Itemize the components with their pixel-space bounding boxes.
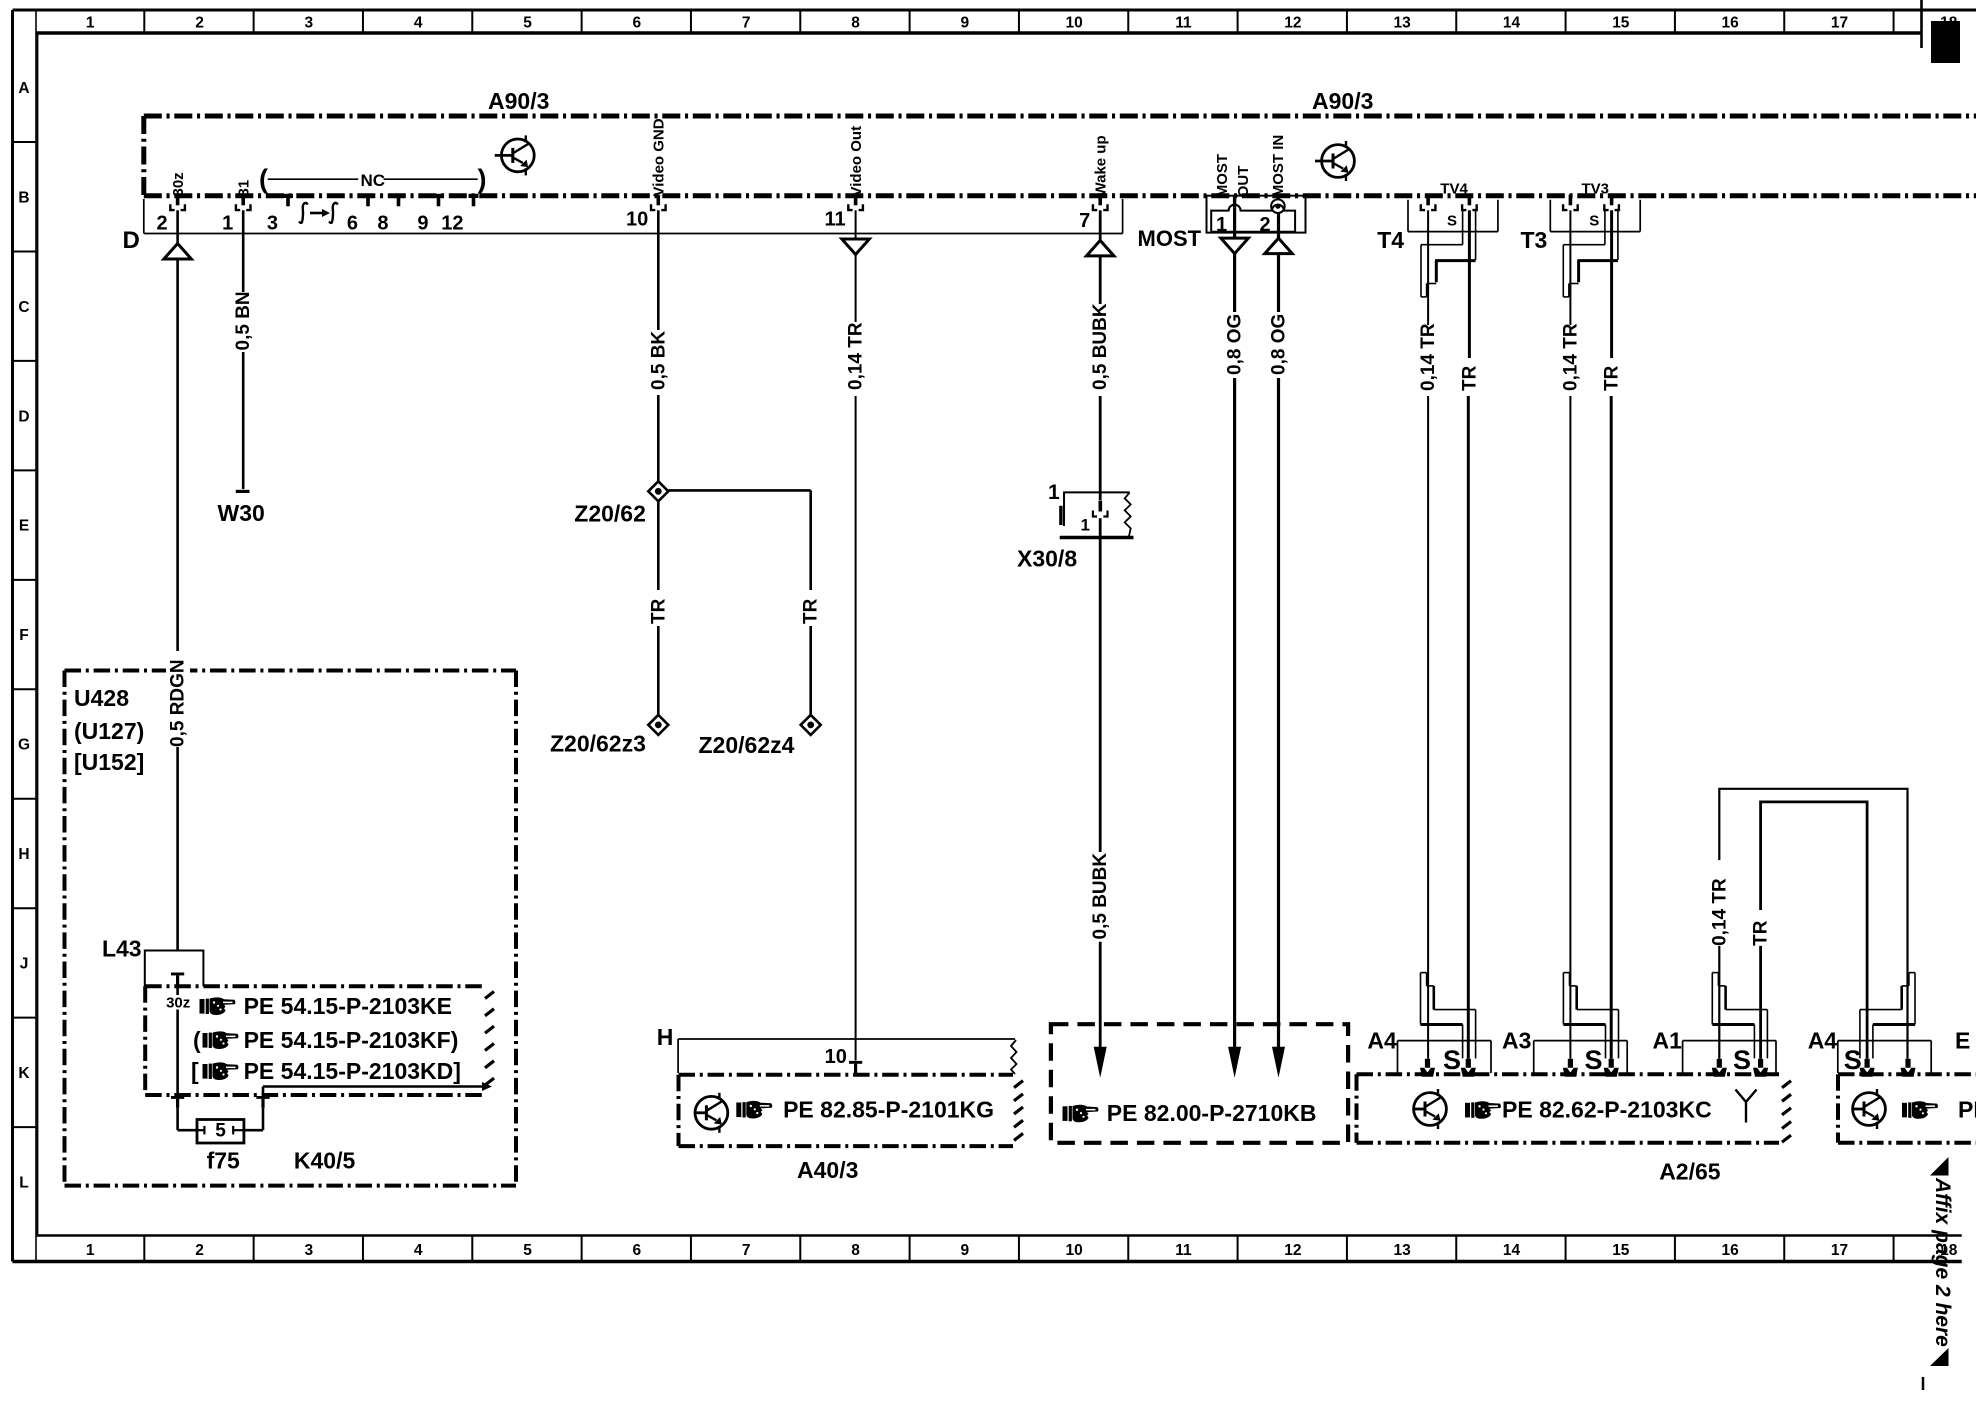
svg-text:PE 54.15-P-2103KF): PE 54.15-P-2103KF): [244, 1027, 459, 1053]
svg-text:Video Out: Video Out: [848, 126, 865, 197]
arrow to PE references: [482, 1082, 492, 1091]
svg-text:12: 12: [1284, 1242, 1301, 1259]
wire 0,5 BN from pin 1: [242, 210, 245, 292]
svg-text:T3: T3: [1521, 227, 1548, 253]
drawing area border: [37, 33, 39, 1236]
shield ribbon A4 right: [1909, 972, 1915, 974]
MOST connector housing: [1207, 196, 1306, 233]
antenna module box right (cut): [1838, 1072, 1976, 1076]
left ruler row dividers: [13, 141, 37, 143]
pin A4 left signal: [1425, 1059, 1430, 1069]
hand icon PE 54.15 row1: [200, 997, 236, 1015]
svg-text:A40/3: A40/3: [797, 1157, 858, 1183]
svg-text:OUT: OUT: [1235, 166, 1252, 198]
svg-text:F: F: [19, 627, 28, 644]
svg-text:0,8 OG: 0,8 OG: [1269, 314, 1290, 375]
svg-text:Z20/62: Z20/62: [574, 500, 646, 526]
svg-text:X30/8: X30/8: [1017, 546, 1077, 572]
wire 0,14 TR from pin 11: [855, 210, 857, 239]
svg-text:0,14 TR: 0,14 TR: [846, 322, 867, 390]
svg-text:S: S: [1443, 1045, 1461, 1075]
svg-text:H: H: [18, 846, 29, 863]
svg-text:3: 3: [305, 1242, 314, 1259]
svg-text:MOST IN: MOST IN: [1270, 135, 1287, 198]
wire interruption symbol between pins 3 and 6: [299, 203, 308, 223]
svg-text:(: (: [193, 1027, 201, 1053]
svg-text:J: J: [20, 956, 29, 973]
shield ribbon T4: [1421, 244, 1463, 246]
arrow into PE box from MOST IN: [1272, 1047, 1285, 1078]
svg-text:15: 15: [1612, 15, 1630, 32]
wire to fuse f75: [176, 1108, 179, 1130]
hand icon PE 82.00: [1063, 1105, 1099, 1123]
svg-text:4: 4: [414, 1242, 423, 1259]
svg-text:6: 6: [633, 1242, 642, 1259]
svg-text:1: 1: [1048, 481, 1060, 504]
svg-text:A3: A3: [1502, 1028, 1531, 1054]
semiconductor symbol in A90/3 left: [495, 135, 534, 175]
top ruler strip bottom line: [36, 31, 1922, 35]
loop shield wire TR between A1 and right A4: [1761, 802, 1868, 1059]
solder point Z20/62z3: [648, 715, 668, 735]
svg-text:13: 13: [1394, 1242, 1412, 1259]
frame outer border: [13, 9, 1976, 12]
svg-text:A1: A1: [1653, 1028, 1683, 1054]
svg-text:30z: 30z: [170, 172, 187, 196]
svg-text:PE 54.15-P-2103KD]: PE 54.15-P-2103KD]: [244, 1058, 461, 1084]
unconnected pin 12 of A90/3: [469, 194, 479, 198]
wire from fuse up to K40/5: [244, 1129, 263, 1132]
shield ribbon A1: [1712, 972, 1718, 974]
MOST pin 2 optical loop: [1271, 199, 1285, 213]
svg-text:2: 2: [195, 1242, 204, 1259]
svg-text:D: D: [18, 408, 29, 425]
svg-text:S: S: [1733, 1045, 1751, 1075]
unconnected pin 8 of A90/3: [394, 194, 404, 198]
semiconductor symbol in right box: [1853, 1089, 1886, 1129]
svg-text:16: 16: [1722, 1242, 1740, 1259]
svg-text:(U127): (U127): [74, 718, 144, 744]
svg-text:0,14 TR: 0,14 TR: [1709, 878, 1730, 946]
svg-text:G: G: [18, 737, 30, 754]
pin 7 of A90/3, Wake up: [1098, 195, 1102, 206]
svg-text:1: 1: [1216, 214, 1227, 236]
top ruler dividers: [143, 10, 145, 33]
hand icon right box: [1902, 1101, 1938, 1119]
svg-text:0,14 TR: 0,14 TR: [1418, 323, 1439, 391]
fuse box K40/5 frame: [145, 984, 483, 988]
page joint mark bottom right: [1922, 1377, 1925, 1390]
pin A4 left shield: [1466, 1059, 1471, 1069]
svg-text:0,5 BUBK: 0,5 BUBK: [1090, 303, 1111, 390]
svg-text:3: 3: [267, 213, 278, 235]
svg-text:10: 10: [1066, 1242, 1083, 1259]
arrow into PE box from 0,5 BUBK: [1094, 1047, 1107, 1078]
svg-text:9: 9: [961, 15, 970, 32]
page joint mark top right: [1920, 0, 1923, 48]
svg-text:12: 12: [441, 213, 463, 235]
svg-text:TR: TR: [1459, 365, 1480, 391]
semiconductor symbol in A2/65: [1414, 1089, 1447, 1129]
svg-text:14: 14: [1503, 1242, 1521, 1259]
svg-text:0,5 RDGN: 0,5 RDGN: [168, 659, 189, 747]
semiconductor symbol in A40/3: [695, 1093, 728, 1133]
wire 0,5 BUBK upper: [1099, 210, 1102, 240]
svg-text:15: 15: [1612, 1242, 1630, 1259]
black registration box top right: [1931, 21, 1960, 63]
pin A1 shield: [1758, 1059, 1763, 1069]
svg-text:Wake up: Wake up: [1092, 135, 1109, 196]
svg-text:12: 12: [1284, 15, 1301, 32]
wire inside K40/5: [176, 986, 179, 995]
direction triangle up on wire 30z: [164, 244, 192, 260]
shield wire TR from TV4: [1468, 210, 1471, 358]
svg-text:16: 16: [1722, 15, 1740, 32]
svg-text:9: 9: [417, 213, 428, 235]
pin A3 shield: [1609, 1059, 1614, 1069]
svg-text:10: 10: [626, 209, 648, 231]
pin TV4 signal: [1426, 195, 1430, 206]
svg-text:K40/5: K40/5: [294, 1148, 356, 1174]
svg-text:[U152]: [U152]: [74, 749, 144, 775]
bottom ruler dividers: [143, 1236, 145, 1262]
wire 0,8 OG from MOST pin 2: [1277, 196, 1280, 200]
component box U428: [65, 669, 517, 673]
svg-text:MOST: MOST: [1214, 154, 1231, 197]
svg-text:0,8 OG: 0,8 OG: [1225, 314, 1246, 375]
pin 10 on A40/3: [849, 1061, 862, 1064]
svg-text:1: 1: [86, 1242, 95, 1259]
wire 0,5 RDGN from pin 2: [176, 210, 179, 243]
svg-text:PE 82.00-P-2710KB: PE 82.00-P-2710KB: [1107, 1100, 1317, 1126]
ground point W30: [236, 490, 250, 493]
svg-text:T4: T4: [1377, 227, 1404, 253]
svg-text:E: E: [1955, 1028, 1970, 1054]
pin A4 right signal: [1905, 1059, 1910, 1069]
svg-text:TR: TR: [648, 598, 669, 624]
shield wire TR from TV3: [1610, 210, 1613, 358]
wire 0,5 BK from pin 10: [657, 210, 660, 330]
wire from label to L43: [176, 747, 179, 951]
shield ribbon T3: [1563, 244, 1605, 246]
bottom ruler top line: [36, 1234, 1962, 1237]
svg-text:6: 6: [347, 213, 358, 235]
svg-text:L43: L43: [102, 936, 142, 962]
svg-text:30z: 30z: [166, 995, 190, 1012]
direction triangle up on Wake up wire: [1086, 240, 1114, 256]
svg-text:10: 10: [825, 1046, 847, 1068]
direction triangle up on MOST IN wire: [1265, 238, 1293, 254]
svg-text:8: 8: [377, 213, 388, 235]
control unit A90/3 box: [144, 114, 1976, 119]
svg-text:U428: U428: [74, 685, 129, 711]
wire 0,8 OG from MOST pin 1: [1233, 208, 1236, 238]
svg-text:S: S: [1589, 212, 1599, 229]
svg-text:PE 82.85-P-2101KG: PE 82.85-P-2101KG: [783, 1097, 994, 1123]
svg-text:TV4: TV4: [1440, 181, 1468, 198]
pin 10 of A90/3, Video GND: [657, 195, 661, 206]
svg-text:A4: A4: [1808, 1028, 1838, 1054]
connector strip D: [143, 199, 145, 234]
svg-text:10: 10: [1066, 15, 1083, 32]
svg-text:E: E: [19, 518, 29, 535]
svg-text:14: 14: [1503, 15, 1521, 32]
semiconductor symbol in A90/3 right: [1315, 141, 1354, 181]
pin 2 of A90/3, terminal 30z: [176, 195, 180, 206]
unconnected pin 6 of A90/3: [363, 194, 373, 198]
svg-text:A90/3: A90/3: [1312, 88, 1373, 114]
pin 1 inside X30/8: [1099, 501, 1103, 512]
svg-text:Z20/62z3: Z20/62z3: [550, 730, 646, 756]
solder point Z20/62: [648, 481, 668, 501]
svg-text:MOST: MOST: [1138, 226, 1202, 251]
svg-text:B: B: [18, 189, 29, 206]
svg-text:): ): [478, 164, 487, 194]
control unit box A40/3: [679, 1073, 1014, 1077]
svg-text:17: 17: [1831, 1242, 1848, 1259]
pin K40/5 bottom right: [256, 1096, 269, 1099]
antenna symbol in A2/65: [1736, 1090, 1757, 1123]
svg-text:Affix page 2 here: Affix page 2 here: [1931, 1177, 1954, 1347]
svg-text:2: 2: [1259, 214, 1270, 236]
svg-text:5: 5: [523, 1242, 532, 1259]
affix page 2 here marker bottom: [1930, 1348, 1949, 1366]
svg-text:5: 5: [215, 1121, 226, 1142]
svg-text:0,5 BN: 0,5 BN: [233, 291, 254, 350]
svg-text:8: 8: [851, 1242, 860, 1259]
wire to PE references: [262, 1087, 265, 1096]
svg-text:31: 31: [235, 180, 252, 197]
loop wire 0,14 TR between A1 and right A4: [1719, 789, 1907, 1059]
wire label 0,5 RDGN: [166, 652, 190, 748]
hand icon PE 82.62: [1465, 1101, 1501, 1119]
direction triangle down on Video Out wire: [842, 239, 870, 255]
svg-text:PE 8: PE 8: [1958, 1097, 1976, 1123]
svg-text:0,5 BK: 0,5 BK: [648, 331, 669, 390]
svg-text:2: 2: [156, 213, 167, 235]
svg-text:11: 11: [824, 209, 845, 231]
svg-text:6: 6: [633, 15, 642, 32]
left ruler inner edge: [35, 10, 37, 1262]
svg-text:A4: A4: [1367, 1028, 1397, 1054]
wire 0,14 TR from TV3: [1569, 210, 1571, 325]
unconnected pin 9 of A90/3: [434, 194, 444, 198]
pin K40/5 bottom left: [171, 1096, 184, 1099]
svg-text:0,14 TR: 0,14 TR: [1560, 323, 1581, 391]
svg-text:TR: TR: [1751, 920, 1772, 946]
torn edge of K40/5 box: [485, 991, 494, 998]
wire right branch to Z20/62z4: [668, 489, 810, 492]
svg-text:8: 8: [851, 15, 860, 32]
svg-text:1: 1: [86, 15, 95, 32]
hand icon A40/3: [736, 1101, 772, 1119]
svg-text:(: (: [259, 164, 268, 194]
svg-text:9: 9: [961, 1242, 970, 1259]
svg-text:11: 11: [1175, 1242, 1192, 1259]
pin 1 of A90/3, terminal 31: [241, 195, 245, 206]
svg-text:NC: NC: [361, 171, 386, 190]
pin at L43 into K40/5: [171, 973, 184, 976]
antenna module box A2/65: [1357, 1072, 1780, 1076]
affix page 2 here marker top: [1930, 1157, 1949, 1176]
svg-text:7: 7: [1079, 210, 1090, 232]
wire 0,5 BUBK lower: [1099, 518, 1102, 852]
wire 0,14 TR from TV4: [1427, 210, 1429, 325]
svg-text:Z20/62z4: Z20/62z4: [699, 732, 795, 758]
svg-text:S: S: [1447, 212, 1457, 229]
svg-text:Video GND: Video GND: [651, 118, 668, 196]
svg-text:TR: TR: [801, 598, 822, 624]
fuse f75: [197, 1120, 244, 1144]
pin TV3 shield S: [1610, 195, 1614, 206]
svg-text:W30: W30: [218, 500, 265, 526]
svg-text:2: 2: [195, 15, 204, 32]
svg-text:1: 1: [222, 213, 233, 235]
svg-text:7: 7: [742, 1242, 751, 1259]
arrow into PE box from MOST OUT: [1228, 1047, 1241, 1078]
svg-text:11: 11: [1175, 15, 1192, 32]
svg-text:TR: TR: [1602, 365, 1623, 391]
svg-text:TV3: TV3: [1582, 181, 1610, 198]
svg-text:C: C: [18, 299, 29, 316]
pin A3 signal: [1568, 1059, 1573, 1069]
svg-text:A2/65: A2/65: [1659, 1159, 1721, 1185]
pin A1 signal: [1717, 1059, 1722, 1069]
svg-text:[: [: [191, 1058, 199, 1084]
MOST pin 1: [1233, 196, 1236, 208]
wire TR left branch: [657, 501, 660, 590]
shield ribbon A4 left: [1421, 972, 1427, 974]
svg-text:L: L: [19, 1175, 28, 1192]
svg-text:A90/3: A90/3: [488, 88, 549, 114]
svg-text:3: 3: [305, 15, 314, 32]
pin A4 right shield: [1865, 1059, 1870, 1069]
torn edge of A2/65 box: [1782, 1081, 1791, 1088]
svg-text:17: 17: [1831, 15, 1848, 32]
unconnected pin 3 of A90/3: [283, 194, 293, 198]
svg-text:f75: f75: [207, 1148, 240, 1174]
svg-text:D: D: [123, 227, 140, 254]
svg-text:A: A: [18, 80, 29, 97]
pin TV3 signal: [1569, 195, 1573, 206]
reference box PE 82.00-P-2710KB: [1051, 1024, 1348, 1143]
direction triangle down on MOST OUT wire: [1221, 238, 1249, 254]
svg-text:7: 7: [742, 15, 751, 32]
svg-text:PE 82.62-P-2103KC: PE 82.62-P-2103KC: [1502, 1097, 1712, 1123]
svg-text:PE 54.15-P-2103KE: PE 54.15-P-2103KE: [244, 993, 452, 1019]
solder point Z20/62z4: [801, 715, 821, 735]
pin 11 of A90/3, Video Out: [854, 195, 858, 206]
svg-text:H: H: [657, 1024, 674, 1050]
svg-text:S: S: [1584, 1045, 1602, 1075]
svg-text:1: 1: [1081, 516, 1090, 535]
torn edge of A40/3 box: [1014, 1081, 1023, 1088]
svg-text:0,5 BUBK: 0,5 BUBK: [1090, 853, 1111, 940]
shield ribbon A3: [1563, 972, 1569, 974]
connector sleeve X30/8: [1063, 491, 1130, 493]
svg-text:5: 5: [523, 15, 532, 32]
svg-text:4: 4: [414, 15, 423, 32]
svg-text:K: K: [18, 1065, 30, 1082]
pin TV4 shield S: [1468, 195, 1472, 206]
svg-text:13: 13: [1394, 15, 1412, 32]
